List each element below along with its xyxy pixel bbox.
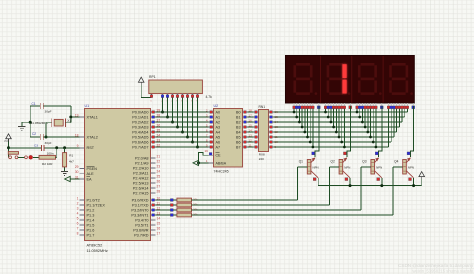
svg-text:P1.6: P1.6 — [87, 228, 95, 232]
svg-text:15: 15 — [157, 221, 161, 225]
transistor Q2 NPN — [331, 157, 351, 177]
svg-text:P2.1/A9: P2.1/A9 — [135, 161, 149, 165]
svg-text:4.7k: 4.7k — [206, 95, 213, 99]
svg-text:AT89C52: AT89C52 — [87, 244, 103, 248]
U2 pin state squares — [209, 111, 246, 156]
state square resistor R6 left — [170, 214, 173, 217]
svg-text:24: 24 — [157, 169, 161, 173]
svg-text:NPN: NPN — [344, 166, 350, 170]
svg-text:B5: B5 — [236, 135, 241, 139]
svg-text:22: 22 — [157, 159, 161, 163]
crystal X1 — [52, 119, 66, 127]
Q2 pin state squares — [343, 152, 347, 181]
svg-text:EA: EA — [87, 177, 93, 181]
wire button to R2 — [33, 156, 39, 158]
svg-text:P2.7/A15: P2.7/A15 — [133, 191, 149, 195]
display pin state squares — [293, 106, 415, 109]
RN1 pin state squares — [255, 111, 273, 149]
svg-text:A1: A1 — [216, 115, 221, 119]
svg-text:30: 30 — [75, 170, 79, 174]
svg-text:5: 5 — [77, 216, 79, 220]
value AT89C52 / 11.0592MHz — [87, 244, 108, 253]
svg-text:B6: B6 — [236, 140, 241, 144]
svg-text:P1.4: P1.4 — [87, 218, 95, 222]
svg-text:21: 21 — [157, 154, 161, 158]
svg-text:P2.3/A11: P2.3/A11 — [133, 171, 148, 175]
svg-text:A4: A4 — [216, 130, 221, 134]
svg-text:P0.2/AD2: P0.2/AD2 — [132, 120, 148, 124]
push button K1 — [8, 152, 32, 160]
svg-text:4k7: 4k7 — [69, 159, 74, 163]
svg-text:CSDN @dianzishejikaifa 51danpi: CSDN @dianzishejikaifa 51danpianji — [398, 263, 473, 268]
svg-text:B7: B7 — [236, 145, 241, 149]
svg-text:C2: C2 — [32, 132, 36, 136]
svg-text:B2: B2 — [236, 120, 241, 124]
watermark — [398, 263, 473, 274]
svg-text:U2: U2 — [214, 104, 219, 108]
svg-text:8: 8 — [77, 231, 79, 235]
svg-text:10k: 10k — [193, 207, 198, 211]
wire Q3 emitter to rail — [381, 178, 383, 186]
svg-text:17: 17 — [157, 231, 161, 235]
state square resistor R4 left — [170, 204, 173, 207]
power VCC (reset) — [4, 134, 11, 143]
svg-text:NPN: NPN — [408, 166, 414, 170]
svg-text:10k: 10k — [193, 202, 198, 206]
svg-text:B1: B1 — [236, 115, 241, 119]
svg-text:P3.1/TXD: P3.1/TXD — [132, 203, 149, 207]
label C1 — [32, 102, 36, 106]
svg-text:P1.0/T2: P1.0/T2 — [87, 198, 100, 202]
wire Q4 base — [393, 167, 403, 215]
value 4k7 (R1) — [69, 159, 74, 163]
power VCC (rail) — [419, 172, 425, 180]
svg-text:P3.7/RD: P3.7/RD — [134, 233, 149, 237]
node CE-ABBA junction — [197, 161, 200, 164]
value 100n (C3) — [47, 152, 54, 156]
svg-text:ALE: ALE — [87, 172, 95, 176]
U1 left pins with names and numbers — [75, 113, 106, 237]
transistor Q4 NPN — [394, 157, 414, 177]
svg-text:P0.6/AD6: P0.6/AD6 — [132, 140, 148, 144]
resistor R4 — [177, 203, 192, 207]
Q1 pin state squares — [312, 152, 316, 181]
svg-text:PSEN: PSEN — [87, 167, 98, 171]
capacitor C2 — [41, 134, 44, 140]
wire XTAL1 net — [30, 106, 79, 123]
wire CE net — [199, 152, 209, 163]
wire P3.2 to resistor — [156, 209, 177, 211]
label C2 — [32, 132, 36, 136]
svg-text:AB/BA: AB/BA — [216, 161, 227, 165]
node VCC-RST junction — [7, 146, 10, 149]
value R2 10R — [42, 162, 53, 166]
wire P3.1 to resistor — [156, 204, 177, 206]
svg-text:U1: U1 — [85, 104, 90, 108]
wires display segment pin drops — [294, 106, 376, 147]
value 30pF (C1) — [45, 110, 52, 114]
svg-text:A5: A5 — [216, 135, 221, 139]
transistor Q3 NPN — [362, 157, 382, 177]
svg-text:A0: A0 — [216, 110, 221, 114]
wires B outputs to RN1 — [248, 112, 254, 147]
wire Q1 base — [298, 167, 308, 200]
svg-text:1: 1 — [77, 196, 79, 200]
svg-text:P0.5/AD5: P0.5/AD5 — [132, 135, 148, 139]
value R6 10k — [193, 212, 198, 216]
svg-text:weixin_53958215 shuma xianshi: weixin_53958215 shuma xianshi — [412, 269, 473, 274]
svg-text:P1.3: P1.3 — [87, 213, 95, 217]
svg-text:RST: RST — [87, 146, 95, 150]
state square resistor R5 left — [170, 209, 173, 212]
wire base row Q4 — [192, 214, 393, 216]
wire P3.0 to resistor — [156, 199, 177, 201]
wires segment bus rows a-dp — [274, 106, 408, 147]
RN1 pin stubs and numbers — [254, 110, 279, 149]
svg-text:P1.7: P1.7 — [87, 233, 95, 237]
node R1-RST junction — [63, 146, 66, 149]
value 11.0592MHz (X1) — [31, 121, 49, 125]
value RN1 220 — [259, 153, 265, 161]
resistor pack RP1 — [149, 80, 203, 94]
svg-text:26: 26 — [157, 179, 161, 183]
resistor R3 — [177, 198, 192, 202]
wire base row Q3 — [192, 209, 362, 211]
wire R2 to RST riser — [56, 148, 57, 158]
svg-text:3: 3 — [77, 206, 79, 210]
wire Q3 base — [361, 167, 371, 210]
wire AB/BA net — [199, 162, 209, 164]
ground (R1) — [61, 171, 68, 175]
wire RST net upper — [9, 147, 80, 149]
IC U2 74HC245 body — [214, 109, 243, 168]
svg-text:P2.5/A13: P2.5/A13 — [133, 181, 149, 185]
svg-text:RP1: RP1 — [149, 75, 156, 79]
state square resistor R3 left — [170, 199, 173, 202]
svg-text:16: 16 — [157, 226, 161, 230]
RP1 pin stubs — [163, 94, 198, 98]
wire base row Q2 — [192, 204, 330, 206]
svg-text:A7: A7 — [216, 145, 221, 149]
net arrow DIR — [193, 160, 199, 165]
svg-text:29: 29 — [75, 165, 79, 169]
wires RP1 pull-up drops — [163, 98, 198, 148]
svg-text:P1.5: P1.5 — [87, 223, 95, 227]
svg-text:B3: B3 — [236, 125, 241, 129]
junction dots RP1 to P0 bus — [161, 111, 199, 149]
svg-text:30pF: 30pF — [45, 110, 52, 114]
U1 pin state squares — [152, 111, 155, 217]
svg-text:NPN: NPN — [313, 166, 319, 170]
value R4 10k — [193, 202, 198, 206]
capacitor C3 — [42, 145, 44, 151]
wire P3.3 to resistor — [156, 214, 177, 216]
svg-text:XTAL2: XTAL2 — [87, 135, 98, 139]
svg-text:P0.7/AD7: P0.7/AD7 — [132, 145, 148, 149]
node ground tap junction — [29, 121, 32, 124]
svg-text:10k: 10k — [193, 212, 198, 216]
svg-text:A6: A6 — [216, 140, 221, 144]
svg-text:P1.2: P1.2 — [87, 208, 95, 212]
label X1 — [67, 119, 71, 123]
display 7SEG-MPX4 with digit 2 showing 1 — [286, 56, 415, 104]
resistor R2 — [39, 155, 56, 159]
svg-text:R1: R1 — [69, 154, 73, 158]
svg-text:P2.0/A8: P2.0/A8 — [135, 156, 149, 160]
svg-text:220: 220 — [259, 157, 264, 161]
svg-text:P3.0/RXD: P3.0/RXD — [132, 198, 149, 202]
resistor R6 — [177, 213, 192, 217]
svg-text:P3.4/T0: P3.4/T0 — [135, 218, 148, 222]
wire VCC to RP1 pin1 — [141, 85, 151, 98]
resistor R5 — [177, 208, 192, 212]
net arrow EA — [65, 176, 80, 181]
wire Q2 base — [329, 167, 339, 205]
wire to ground — [22, 122, 30, 126]
svg-text:11.0592MHz: 11.0592MHz — [87, 249, 108, 253]
svg-text:B4: B4 — [236, 130, 241, 134]
U2 pins with names and numbers — [205, 108, 253, 165]
node XTAL1 junction — [69, 116, 72, 119]
junction dots segment drops — [293, 111, 378, 149]
value R3 10k — [193, 197, 198, 201]
svg-text:NPN: NPN — [376, 166, 382, 170]
label U2 — [214, 104, 219, 108]
wires P0 to 74HC245 A inputs — [156, 112, 209, 147]
transistor Q1 NPN — [299, 157, 319, 177]
wire Q2 emitter to rail — [349, 178, 351, 186]
value R5 10k — [193, 207, 198, 211]
display pin stubs — [294, 103, 413, 106]
svg-text:7: 7 — [77, 226, 79, 230]
svg-text:27: 27 — [157, 184, 161, 188]
svg-text:P1.1/T2EX: P1.1/T2EX — [87, 203, 106, 207]
svg-text:R2 10R: R2 10R — [42, 162, 53, 166]
RP1 pin numbers — [150, 101, 198, 103]
svg-text:P3.2/INT0: P3.2/INT0 — [131, 208, 148, 212]
wire crystal right stub — [65, 122, 70, 124]
value 30pF (C2) — [45, 141, 52, 145]
svg-text:P3.3/INT1: P3.3/INT1 — [131, 213, 148, 217]
svg-text:P3.6/WR: P3.6/WR — [133, 228, 148, 232]
ground (crystal) — [18, 127, 26, 131]
svg-text:RN1: RN1 — [259, 105, 266, 109]
svg-text:P0.1/AD1: P0.1/AD1 — [132, 115, 148, 119]
wire left cap bus — [29, 106, 31, 137]
svg-text:C1: C1 — [32, 102, 36, 106]
svg-text:25: 25 — [157, 174, 161, 178]
power VCC (RP1) — [138, 77, 144, 85]
label RP1 — [149, 75, 156, 79]
svg-text:B0: B0 — [236, 110, 241, 114]
svg-text:P3.5/T1: P3.5/T1 — [135, 223, 148, 227]
capacitor C1 — [41, 103, 44, 109]
svg-text:Q1: Q1 — [299, 160, 303, 164]
svg-text:P2.6/A14: P2.6/A14 — [133, 186, 149, 190]
svg-text:14: 14 — [157, 216, 161, 220]
svg-text:Q2: Q2 — [331, 160, 335, 164]
Q3 pin state squares — [375, 152, 379, 181]
label R1 — [69, 154, 73, 158]
wire crystal left to XTAL2 — [46, 123, 52, 137]
value 4.7k (RP1) — [206, 95, 213, 99]
svg-text:P2.2/A10: P2.2/A10 — [133, 166, 149, 170]
resistor R1 — [63, 148, 67, 172]
svg-text:Q3: Q3 — [362, 160, 366, 164]
label U1 — [85, 104, 90, 108]
svg-text:CE: CE — [216, 154, 222, 158]
svg-text:30pF: 30pF — [45, 141, 52, 145]
svg-text:28: 28 — [157, 189, 161, 193]
svg-text:XTAL1: XTAL1 — [87, 115, 98, 119]
svg-text:P0.4/AD4: P0.4/AD4 — [132, 130, 148, 134]
label RN1 — [259, 105, 266, 109]
svg-text:P0.0/AD0: P0.0/AD0 — [132, 110, 148, 114]
svg-text:19: 19 — [205, 149, 209, 153]
node crystal-XTAL2 junction — [45, 136, 48, 139]
svg-text:10k: 10k — [193, 197, 198, 201]
svg-text:C3: C3 — [34, 144, 38, 148]
IC U1 AT89C52 body — [85, 109, 151, 241]
svg-text:A2: A2 — [216, 120, 221, 124]
Q4 pin state squares — [407, 152, 411, 181]
wire emitter rail — [318, 179, 422, 185]
wires display commons to transistors — [315, 106, 413, 157]
svg-text:2: 2 — [77, 201, 79, 205]
node R2-RST junction — [55, 146, 58, 149]
svg-text:6: 6 — [77, 221, 79, 225]
RP1 pin state squares — [150, 95, 199, 98]
wire Q1 emitter to rail — [317, 178, 319, 186]
svg-text:Q4: Q4 — [394, 160, 398, 164]
wire Q4 emitter to rail — [413, 178, 415, 186]
svg-text:23: 23 — [157, 164, 161, 168]
svg-text:P2.4/A12: P2.4/A12 — [133, 176, 149, 180]
U1 right pins with names and numbers — [131, 108, 160, 237]
svg-text:A3: A3 — [216, 125, 221, 129]
wire XTAL2 net — [30, 136, 79, 138]
value 74HC245 — [214, 170, 229, 174]
resistor network RN1 body — [259, 110, 269, 152]
label C3 — [34, 144, 38, 148]
junction dots emitter rail — [349, 184, 416, 187]
wire VCC stem to button row — [8, 141, 10, 157]
svg-text:74HC245: 74HC245 — [214, 170, 229, 174]
svg-text:P0.3/AD3: P0.3/AD3 — [132, 125, 148, 129]
svg-text:4: 4 — [77, 211, 79, 215]
wire base row Q1 — [192, 199, 298, 201]
